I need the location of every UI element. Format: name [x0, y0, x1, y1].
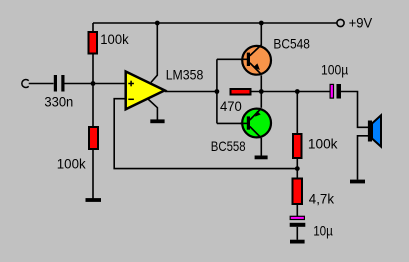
wire R1 bottom down past input node to R2 — [92, 55, 94, 128]
terminal +9V open circle — [337, 19, 344, 26]
resistor R3 470 — [231, 89, 251, 95]
node rail dot at op-amp power — [155, 21, 160, 26]
node output junction dot — [215, 89, 220, 94]
wire top supply rail — [93, 22, 337, 24]
wire left drop from rail to R1 — [92, 23, 94, 32]
capacitor C1 330n — [55, 75, 63, 92]
wire Q2 emitter up to output node — [260, 92, 262, 108]
wire R2 to ground — [92, 149, 94, 199]
op-amp U1 LM358 — [126, 72, 165, 110]
svg-text:10µ: 10µ — [313, 223, 333, 239]
node feedback junction dot — [295, 166, 300, 171]
svg-text:100k: 100k — [308, 135, 339, 151]
capacitor C3 10u electrolytic — [290, 216, 306, 227]
svg-text:100k: 100k — [100, 31, 129, 47]
wire op-amp ground lead — [148, 99, 157, 120]
ground below Q2 — [255, 155, 268, 159]
wire to Q1 base — [217, 58, 249, 60]
svg-text:LM358: LM358 — [166, 67, 204, 83]
wire base split vertical — [216, 59, 218, 123]
svg-text:4,7k: 4,7k — [309, 191, 335, 207]
node input junction dot — [91, 81, 96, 86]
terminal audio input — [22, 80, 29, 88]
ground below speaker — [350, 180, 365, 184]
wire C1 to op-amp plus input — [65, 83, 126, 85]
wire op-amp power from rail — [151, 23, 157, 82]
ground below op-amp — [150, 119, 164, 123]
wire input to C1 — [29, 83, 54, 85]
svg-text:470: 470 — [220, 98, 242, 114]
transistor Q2 BC558 — [240, 108, 271, 138]
resistor R4 100k — [293, 134, 302, 158]
svg-text:BC558: BC558 — [211, 138, 246, 154]
wire op-amp output — [165, 91, 217, 93]
wire Q1 emitter down to output node — [260, 75, 262, 91]
ground below C3 — [290, 240, 305, 244]
resistor R2 100k — [89, 127, 98, 149]
wire C3 to ground — [296, 227, 298, 240]
wire speaker lower terminal to ground — [358, 136, 369, 180]
wire R5 to C3 — [296, 204, 298, 216]
transistor Q1 BC548 — [240, 45, 271, 75]
node output rail dot at R4 — [295, 89, 300, 94]
wire Q1 collector to rail — [260, 23, 262, 46]
ground below R2 — [86, 198, 102, 202]
speaker LS1 — [368, 115, 381, 146]
svg-text:100µ: 100µ — [321, 62, 348, 78]
wire to Q2 base — [217, 122, 249, 124]
node emitters junction dot — [259, 89, 264, 94]
wire R4 to R5 — [296, 158, 298, 179]
svg-text:330n: 330n — [44, 93, 73, 109]
label op-amp plus input — [128, 81, 134, 87]
resistor R5 4,7k — [293, 179, 303, 205]
capacitor C2 100u electrolytic — [330, 84, 341, 99]
node rail dot at Q1 collector — [259, 21, 264, 26]
wire feedback from minus input down and right — [114, 99, 297, 169]
wire down to R4 — [296, 92, 298, 135]
label op-amp minus input — [128, 98, 134, 100]
wire R3 right to C2 — [252, 91, 330, 93]
svg-text:BC548: BC548 — [273, 35, 310, 51]
svg-text:+9V: +9V — [349, 14, 373, 30]
wire C2 to speaker upper terminal — [341, 92, 368, 128]
svg-text:100k: 100k — [57, 155, 87, 171]
resistor R1 100k — [89, 32, 98, 54]
wire Q2 collector to ground — [260, 138, 262, 156]
